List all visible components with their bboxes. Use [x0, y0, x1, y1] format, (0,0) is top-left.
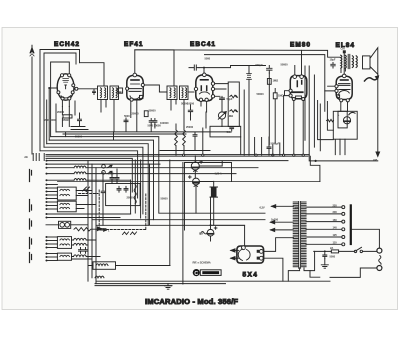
svg-text:EL84: EL84 [336, 42, 356, 49]
tone box [210, 126, 241, 137]
ground bottom [165, 284, 172, 290]
volume potentiometer [218, 112, 234, 127]
wire: AF lines left [92, 220, 154, 226]
svg-text:100000: 100000 [160, 121, 169, 125]
value 5000 a [51, 118, 57, 122]
svg-text:245: 245 [373, 158, 378, 162]
HT arrow 1 [271, 218, 294, 224]
wire: feedback zigzag left [327, 119, 334, 121]
wire: ECH42 bottom joins [65, 132, 67, 137]
wire: EL84 grid cap wire [343, 53, 345, 74]
svg-text:5X4: 5X4 [243, 272, 259, 279]
bus line 7 [46, 158, 132, 192]
tone feedback squiggle [349, 112, 355, 114]
wire: IFT2 to EBC41 grid [188, 91, 194, 93]
bus line 4 [44, 147, 143, 214]
junction dot 315.6 [315, 160, 317, 162]
IF transformer T2 [167, 86, 188, 100]
ganged tuning dashed [79, 190, 146, 230]
svg-text:10μF: 10μF [330, 58, 336, 62]
capacitor EF41 screen B [153, 119, 157, 125]
grid-cap square EL84 [341, 47, 346, 54]
svg-text:140: 140 [333, 226, 338, 230]
wire: EF41 leads down [131, 100, 137, 131]
wire: ECH42 heater leads [62, 100, 69, 106]
wire: mid verticals [131, 160, 150, 225]
B+ rail 2 [205, 55, 325, 112]
mains terminal top [377, 248, 382, 253]
zigzag pair tone [123, 232, 137, 235]
bus heavy [46, 155, 378, 161]
wire: drop x305 [304, 66, 306, 140]
wire: EF41 plate to IFT2 [145, 85, 168, 92]
switch dot [324, 250, 326, 252]
wire: x183 vertical pair [183, 163, 185, 285]
wire: IFT2 bottom drops [171, 100, 184, 129]
bus line 1 [51, 137, 265, 214]
dial lamps [46, 221, 88, 228]
svg-text:Cm: Cm [341, 47, 346, 51]
wire: ECH42 cathode net [56, 101, 88, 132]
wire: selector to mains [352, 229, 380, 248]
wire: osc coils right [76, 191, 96, 209]
coil on row 245 [74, 243, 87, 245]
svg-text:20000: 20000 [149, 109, 157, 113]
bus line 2 [49, 140, 265, 220]
svg-text:20000: 20000 [132, 112, 140, 116]
wire: switch stubs to osc coils [46, 184, 58, 211]
svg-text:RIF. e SCHEMA: RIF. e SCHEMA [193, 260, 211, 264]
wire: EBC41 plate rail [199, 66, 266, 68]
svg-text:25000: 25000 [186, 125, 194, 129]
capacitor 5000 coupling [189, 57, 211, 71]
resistor EF41 screen [144, 109, 156, 117]
volume control zigzag [74, 227, 106, 231]
wire: EL84 screen stubs [325, 86, 335, 91]
wire: rows 214 [46, 213, 131, 215]
coil on row 240 [74, 238, 87, 240]
wire: C1 top wire [199, 161, 222, 166]
junction circles on bus [183, 154, 305, 156]
wire: EF41 top loop [135, 50, 174, 86]
output transformer [341, 54, 358, 68]
tube EF41 [126, 73, 145, 101]
wire: transformer bottom 2 [304, 251, 315, 270]
coil on row 256.5 [74, 255, 87, 257]
svg-text:EF41: EF41 [124, 41, 144, 48]
trimmer arrows [83, 187, 90, 193]
svg-text:C: C [194, 271, 198, 277]
IF transformer T1 [98, 86, 119, 100]
label EL84 [336, 42, 356, 49]
label EBC41 [190, 41, 216, 48]
capacitor 50pF top [220, 96, 233, 112]
svg-text:5000: 5000 [330, 255, 336, 259]
wafer bracket B [30, 200, 32, 212]
value 5000 EF41 [124, 114, 130, 118]
capacitor EF41 cathode [124, 118, 128, 124]
resistor EM80 2 [273, 93, 284, 99]
svg-text:110: 110 [333, 241, 338, 245]
svg-text:IMCARADIO - Mod. 356/F: IMCARADIO - Mod. 356/F [145, 297, 238, 306]
capacitor pair above det box [108, 171, 119, 181]
antenna [30, 45, 34, 154]
value 10000 OPT [330, 58, 336, 62]
osc coil box 1 [57, 187, 76, 200]
wire: bus step to rail [310, 156, 320, 181]
band switch contacts [24, 154, 44, 161]
svg-text:1MΩ: 1MΩ [228, 114, 235, 118]
electrolytic C3 [207, 227, 217, 236]
arrow to 1 [100, 228, 110, 232]
tube ECH42 [57, 74, 78, 101]
capacitor RC box bottom [230, 127, 234, 131]
wire: mains lower wire [330, 268, 377, 277]
electrolytic C1 [191, 161, 202, 172]
svg-text:EBC41: EBC41 [190, 41, 216, 48]
mains cord squiggle [379, 256, 381, 265]
wire: ECH42 outer HT loop [40, 50, 80, 151]
label EF41 [124, 41, 144, 48]
choke [210, 187, 218, 197]
plus mark cathode [338, 114, 340, 117]
wire: EM80 leads down [294, 101, 303, 156]
value 2000 l [44, 118, 50, 122]
voltage selector bar [350, 204, 352, 245]
wire: EM80 grid feeds [269, 50, 301, 144]
svg-text:EM80: EM80 [290, 42, 311, 49]
coil row L3 [46, 179, 131, 182]
wire: rect cathode line [211, 225, 245, 246]
wire: transformer bottom 3 [310, 271, 320, 278]
wire: switch rows long [46, 160, 289, 166]
value 5000 50000 [148, 124, 162, 128]
phono jack 1 [102, 165, 112, 169]
coil row L1 [46, 166, 259, 169]
wire: choke drop [199, 181, 213, 224]
svg-text:5000pF: 5000pF [271, 141, 280, 145]
mains terminal bottom [377, 266, 382, 271]
heater 6.3V arrow [260, 205, 300, 210]
value 50000 left [181, 101, 189, 105]
wire: EBC41 leads down [201, 102, 207, 113]
resistor AF 1 [175, 130, 178, 146]
svg-text:5000: 5000 [124, 114, 130, 118]
wire: 5X4 plate wires [263, 238, 293, 282]
svg-text:500pF: 500pF [256, 63, 264, 67]
value 25000 [186, 125, 194, 129]
wire: C1 C2 stems [194, 156, 197, 213]
svg-text:50000: 50000 [181, 101, 189, 105]
wire: lower nets [72, 240, 101, 259]
wire: EBC41 diode wires [215, 84, 229, 97]
speaker [363, 48, 378, 74]
svg-text:4MΩ: 4MΩ [226, 130, 233, 134]
ant coil box 4 [57, 253, 71, 260]
wire: IFT1 bottom drops [101, 100, 114, 141]
wire: ECH42 AVC loop [44, 53, 76, 147]
bus line 3 [47, 144, 245, 226]
svg-text:50000: 50000 [281, 63, 289, 67]
svg-text:220: 220 [333, 203, 338, 207]
wire: ECH42 grid loop [51, 62, 70, 137]
svg-text:ECH42: ECH42 [54, 41, 80, 48]
ferrite coil 2 [95, 276, 104, 278]
wafer bracket A [30, 170, 32, 182]
capacitor on 249 drop [247, 74, 252, 80]
grid stopper box EF41 [118, 88, 123, 93]
value 8uF [199, 232, 204, 236]
transformer taps [306, 203, 345, 246]
wire: verticals to bus [244, 66, 280, 156]
logo badge [193, 269, 221, 277]
osc coil box 2 [57, 201, 76, 212]
value 20000 EF41 [132, 112, 140, 116]
svg-text:20000: 20000 [57, 110, 65, 114]
coil row L2 [46, 172, 237, 175]
value 50000 mid [257, 92, 265, 96]
resistor AF 2 [183, 130, 186, 146]
wire: tone box right drop [240, 137, 242, 155]
value 100000 [160, 121, 169, 125]
wire: stubs lower [46, 236, 58, 249]
title IMCARADIO - Mod. 356/F [145, 297, 238, 306]
squiggle C3 [201, 231, 207, 234]
EL84 cathode box [333, 111, 357, 139]
long rail y181 [58, 181, 320, 183]
electrolytic C2 [189, 176, 200, 187]
capacitor 500pF [267, 66, 272, 74]
wafer bracket C [30, 219, 32, 229]
label EM80 [290, 42, 311, 49]
wire: filter box top [185, 163, 232, 182]
svg-text:125: 125 [333, 233, 338, 237]
wire: vertical 46.7 [46, 100, 48, 144]
resistor osc 20000 [63, 115, 72, 118]
value 20000 [57, 110, 65, 114]
bus line 5 [40, 151, 138, 198]
electrolytic EL84 cathode [343, 117, 350, 124]
tube EM80 [289, 75, 307, 101]
svg-text:200: 200 [333, 210, 338, 214]
mains cap 5000 [323, 253, 336, 259]
capacitor EF41 screen A [149, 119, 153, 125]
value 50000 b [75, 135, 83, 139]
svg-text:2000: 2000 [44, 118, 50, 122]
wire: rows 217.5 [46, 217, 121, 219]
heater arrow 5X4 top [231, 249, 239, 252]
detector coil box [106, 184, 141, 206]
value 500pF [256, 63, 264, 67]
wire: EM80 res drop [274, 89, 276, 144]
value 10000 [187, 102, 195, 106]
svg-text:5000: 5000 [108, 171, 114, 175]
mains line with fuse [314, 246, 377, 253]
wire: ECH42 to IFT1 primary [80, 63, 105, 86]
HT arrow 2 [271, 228, 294, 231]
value 1,25A [215, 172, 222, 176]
svg-text:AE: AE [24, 155, 28, 159]
capacitor osc grid [78, 117, 82, 123]
capacitor AF [193, 133, 197, 139]
heater arrow 5X4 bottom [231, 257, 239, 260]
RC box right of EBC41 [228, 82, 239, 127]
speaker sound arrow [365, 76, 379, 81]
wire: transformer bottom 1 [288, 268, 299, 281]
wire: x170 vertical [169, 160, 171, 266]
svg-text:160: 160 [333, 218, 338, 222]
resistor EM80 1 [267, 79, 279, 85]
B+ rail 1 [135, 50, 340, 57]
wire: stubs lowest [46, 253, 58, 262]
wire: C3 vertical [210, 197, 212, 241]
capacitor IFT1 trim [93, 90, 96, 95]
logo text [193, 260, 211, 264]
wire: ECH42 grid left [48, 87, 57, 140]
rectifier 5X4 [237, 246, 264, 263]
value 25000 [63, 118, 71, 122]
wire: EL84 leads to box [341, 102, 348, 111]
wire: EF41 bottom wires [56, 120, 230, 134]
wire: EM80 left returns [284, 91, 289, 156]
svg-text:2A: 2A [330, 246, 333, 250]
power transformer [293, 202, 306, 269]
svg-text:50pF: 50pF [227, 97, 233, 101]
value 50000 EM80 [281, 63, 289, 67]
capacitor ac shunt [188, 108, 192, 115]
wafer bracket E [30, 253, 32, 263]
svg-text:50000: 50000 [161, 196, 169, 200]
arrow B+ end [373, 152, 380, 162]
tube EL84 [335, 74, 352, 102]
wafer bracket D [30, 238, 32, 249]
wire: AF hline 150.5 [160, 150, 210, 152]
wire: ECH42 anode right [78, 88, 97, 90]
wire: bottom left verticals [88, 161, 96, 284]
svg-text:6,3V: 6,3V [260, 205, 265, 209]
wire: OPT primary bottom [341, 68, 345, 73]
capacitor OPT [331, 63, 335, 69]
svg-text:1,25 A: 1,25 A [215, 172, 222, 176]
phono jack 2 [102, 171, 112, 175]
bottom bus [96, 280, 330, 282]
wire: nested verticals right [309, 66, 335, 155]
svg-text:1MΩ: 1MΩ [273, 79, 280, 83]
svg-text:50000: 50000 [257, 92, 265, 96]
capacitor 5000pF bus [267, 141, 280, 150]
capacitor lower caps [79, 248, 88, 254]
wire: bottom lines [95, 284, 226, 286]
wire: AF cluster [176, 105, 206, 155]
wire: IFT1 secondary to EF41 [119, 91, 122, 93]
ant coil box 3 [57, 237, 71, 249]
wire: EBC41 top entry [203, 67, 205, 73]
label 5X4 [243, 272, 259, 279]
tube EBC41 [194, 73, 214, 102]
wire: speaker to B+ drop [377, 74, 379, 153]
svg-text:5000: 5000 [205, 57, 211, 61]
capacitor left of det box [101, 188, 105, 195]
value 50000 mid-left [161, 196, 169, 200]
ferrite coil 1 [88, 262, 170, 270]
wire: cathode box drop [340, 139, 345, 154]
svg-text:2x300: 2x300 [271, 218, 279, 222]
label ECH42 [54, 41, 80, 48]
ground mains [321, 259, 328, 269]
wire: det box drop [103, 169, 117, 225]
